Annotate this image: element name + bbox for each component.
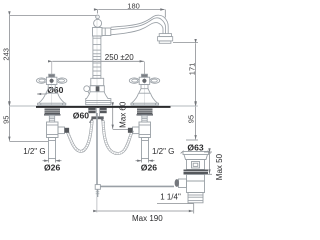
drain flange [183,152,209,160]
svg-text:1 1/4": 1 1/4" [160,192,181,201]
hose fittings at column [90,119,104,123]
dim 250 ±20 [52,61,145,74]
column centerline [96,16,98,105]
rod lower screw [97,189,99,197]
svg-text:Ø63: Ø63 [187,143,203,153]
right valve body [139,122,151,138]
svg-text:Max 190: Max 190 [132,214,163,223]
dim 95 left [9,107,48,142]
svg-text:95: 95 [187,115,196,123]
svg-text:171: 171 [187,63,196,76]
drain clevis [175,179,187,188]
drain body [187,175,205,193]
right valve locknut [137,109,154,115]
column top body + spout socket [93,28,111,37]
pop-up rod [96,113,98,185]
left valve shank [49,115,54,122]
column bell base [86,92,111,105]
pop-up lift knob [84,86,90,95]
left valve side port [58,127,69,134]
deck line [9,105,197,107]
left handle centerline [51,62,53,106]
right handle centerline [144,62,146,106]
svg-text:Ø26: Ø26 [141,162,157,172]
dim 95 right [186,107,198,140]
column collar [90,86,104,92]
right hose [103,121,133,154]
dim 180 [98,10,166,18]
right valve shank [142,115,147,122]
svg-text:250 ±20: 250 ±20 [105,53,134,62]
left handle cross [37,74,67,84]
column shaft segments [91,36,104,86]
dim Max 60 [113,107,130,130]
column under-deck nuts [88,108,106,119]
drain tailpipe [188,193,203,203]
svg-text:Max 50: Max 50 [215,153,224,180]
left valve tail 1/2G [49,138,56,159]
left valve locknut [44,109,61,115]
dim Ø60 handle [37,93,47,95]
svg-text:243: 243 [1,48,10,61]
svg-text:1/2" G: 1/2" G [152,147,174,156]
svg-text:95: 95 [2,116,11,124]
drain nut [184,170,209,175]
pop-up horizontal rod [100,185,174,187]
dim Ø63 [181,151,211,154]
left valve body [47,122,59,138]
dim Max 50 [204,152,212,174]
right valve tail 1/2G [142,138,149,159]
right valve side port [128,127,139,134]
column finial [94,15,102,27]
dim Max 190 [98,204,194,214]
dim 243 [9,16,96,106]
drain neck with square [187,160,205,170]
dim 171 [173,43,198,106]
svg-text:Ø60: Ø60 [73,111,89,121]
right handle cross [129,74,159,84]
svg-text:Ø26: Ø26 [44,162,60,172]
spout outlet bell [158,34,173,44]
left hose [67,121,93,152]
dim Ø26 right [136,159,155,163]
spout [111,15,168,35]
pop-up rod square joint [95,185,100,190]
dim Ø26 left [43,159,62,163]
left handle bell [38,85,66,105]
svg-text:1/2" G: 1/2" G [23,147,45,156]
svg-text:180: 180 [127,1,140,10]
right handle bell [131,85,159,105]
svg-text:Max 60: Max 60 [118,101,127,128]
